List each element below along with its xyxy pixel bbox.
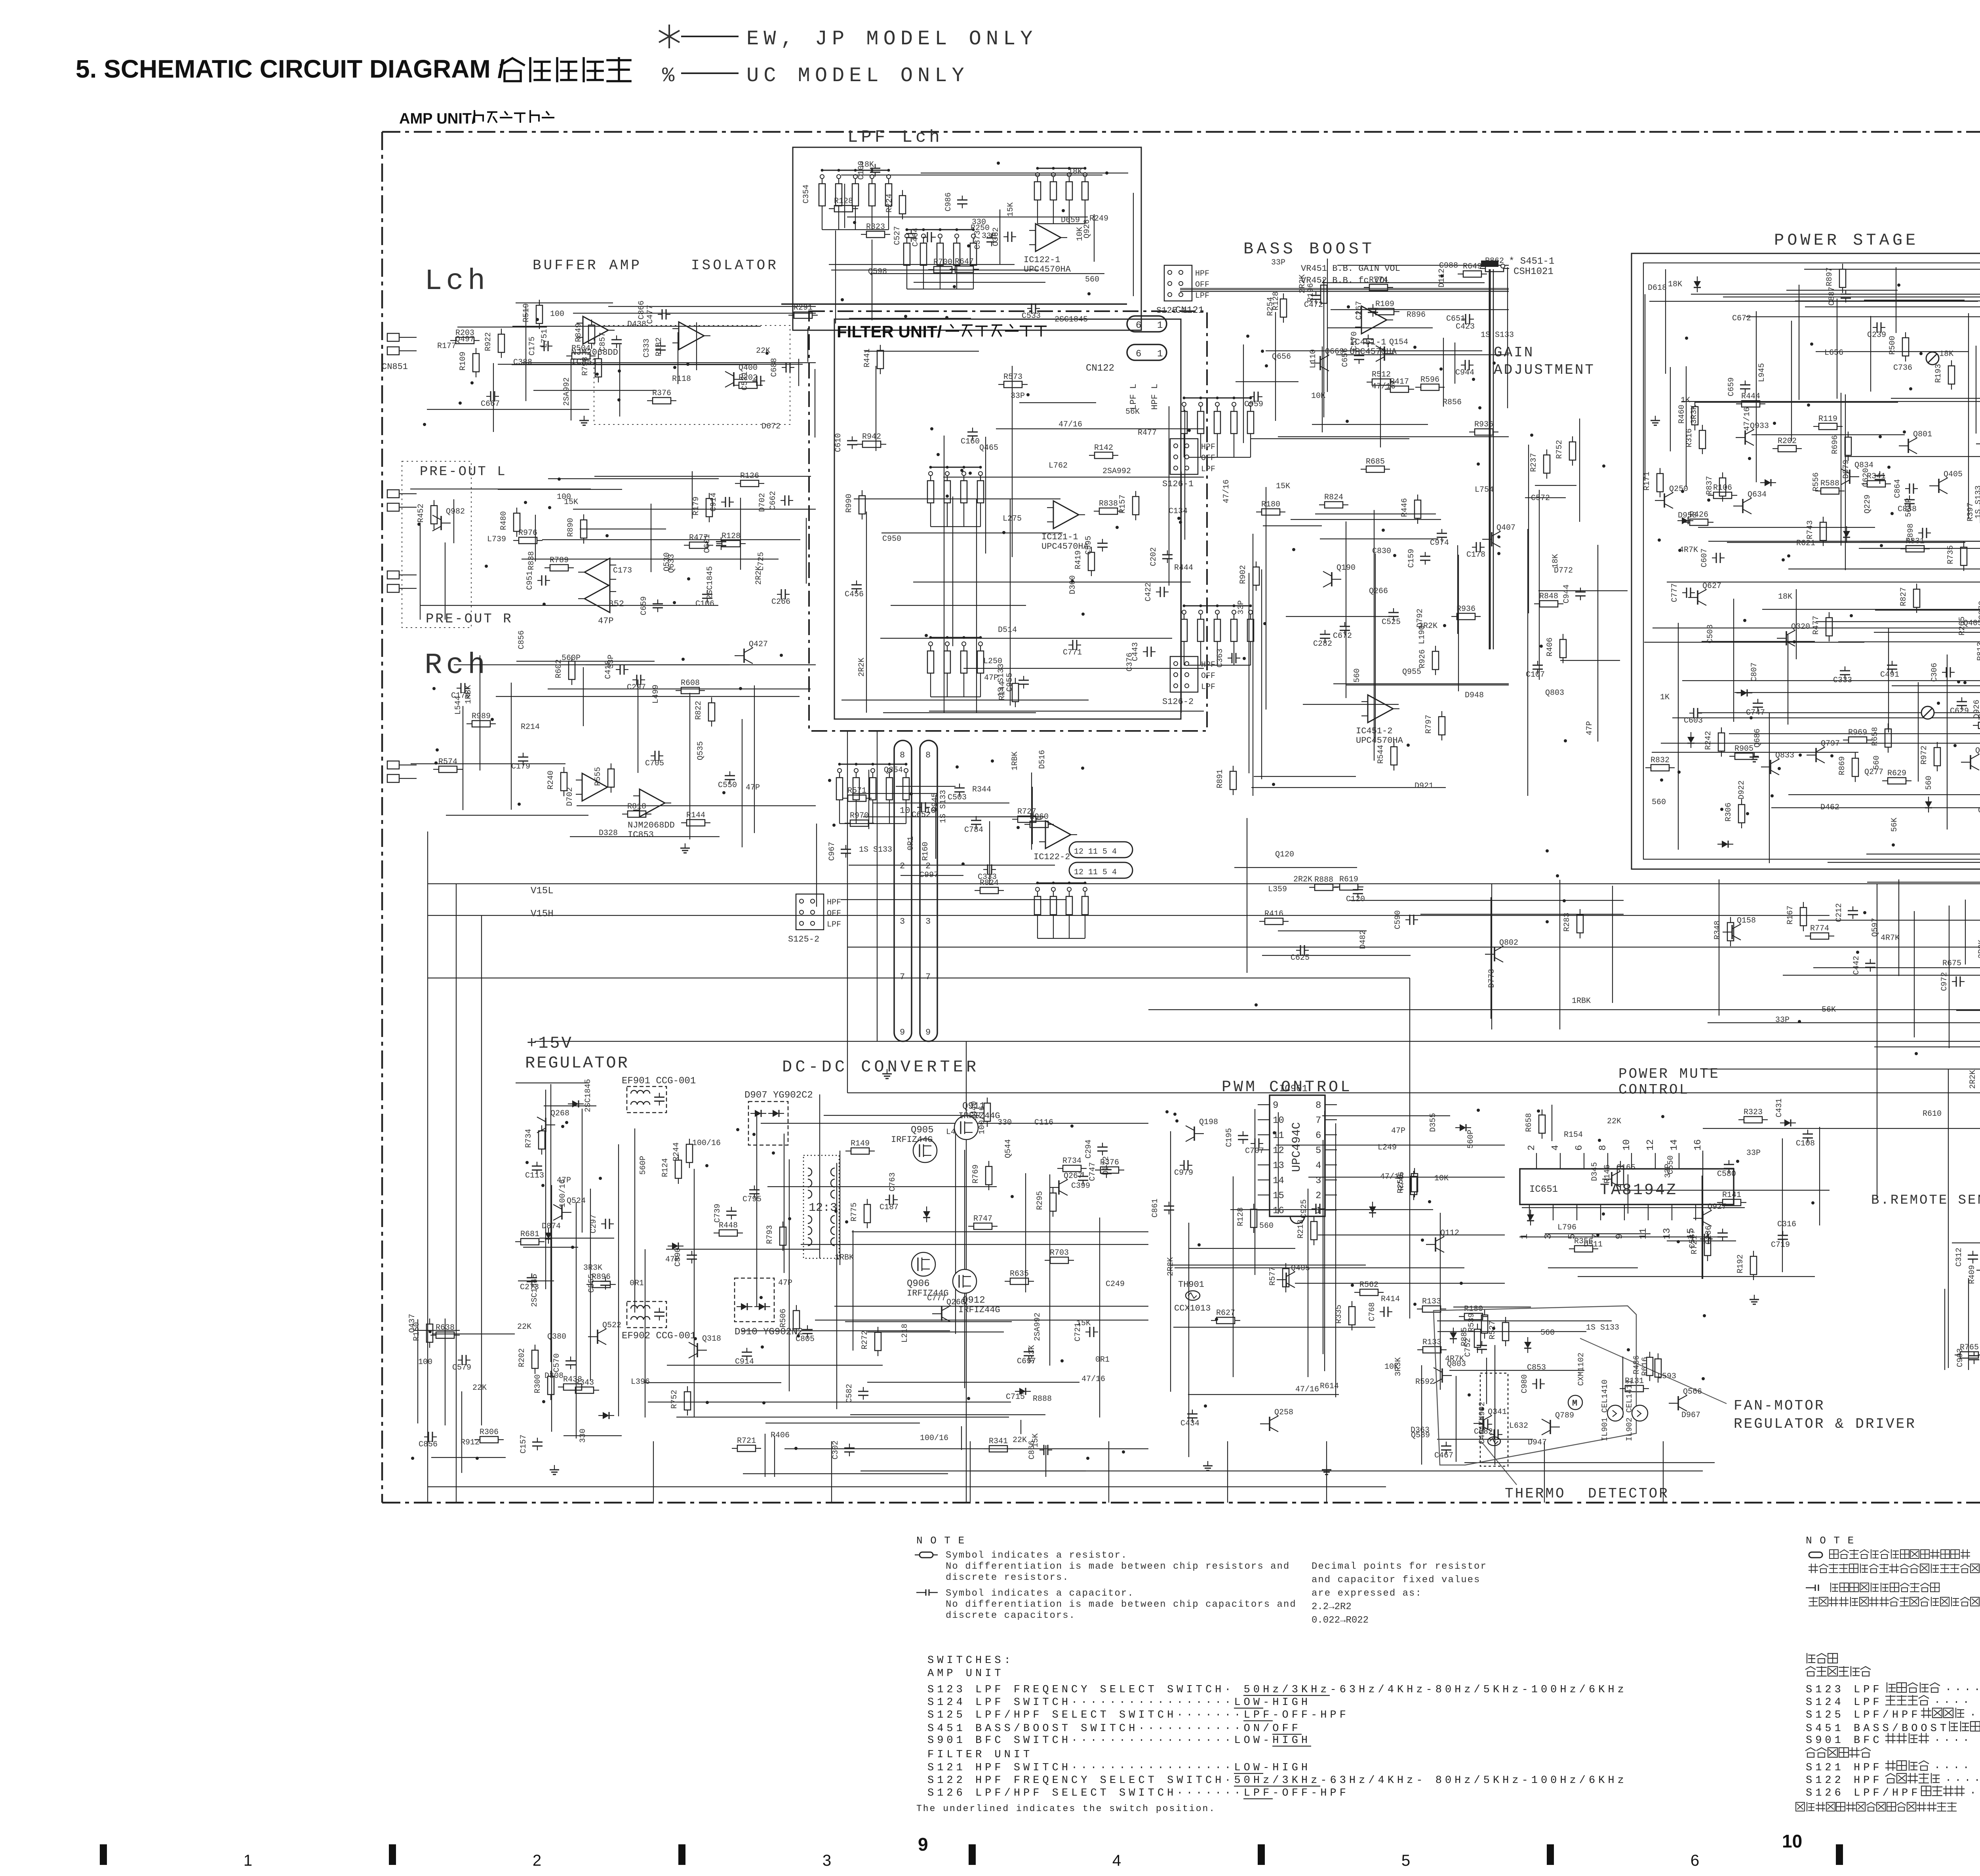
svg-text:S123 LPF: S123 LPF [1806, 1684, 1883, 1696]
svg-text:R621: R621 [1796, 539, 1815, 548]
wire [1437, 1320, 1612, 1321]
svg-text:···· LOW-HIGH: ···· LOW-HIGH [1934, 1735, 1980, 1747]
wire [445, 542, 445, 620]
svg-text:N O T E: N O T E [916, 1535, 965, 1547]
svg-text:R734: R734 [524, 1129, 533, 1148]
junction dots [937, 453, 940, 456]
svg-text:R890: R890 [566, 518, 575, 537]
svg-text:Q906: Q906 [907, 1279, 930, 1289]
svg-text:9: 9 [918, 1834, 928, 1855]
svg-text:D702: D702 [758, 493, 767, 512]
svg-text:AMP UNIT: AMP UNIT [927, 1668, 1004, 1680]
svg-text:R905: R905 [1734, 744, 1753, 753]
svg-text:C178: C178 [1466, 550, 1485, 559]
svg-text:Q801: Q801 [1913, 430, 1932, 439]
svg-text:R616: R616 [1641, 1357, 1650, 1376]
svg-text:R556: R556 [1812, 472, 1821, 491]
resistor R157 [1133, 497, 1139, 515]
svg-text:33P: 33P [982, 232, 996, 241]
svg-text:R343: R343 [575, 1378, 594, 1387]
svg-text:D328: D328 [599, 829, 618, 838]
svg-text:L593: L593 [1657, 1372, 1676, 1381]
svg-text:7: 7 [1316, 1115, 1321, 1126]
svg-text:Q154: Q154 [1389, 338, 1408, 347]
resistor R571 [848, 795, 866, 801]
block box FILTER UNIT inner [834, 319, 1181, 719]
svg-text:33P: 33P [1664, 1164, 1673, 1178]
svg-text:47/16: 47/16 [1059, 420, 1082, 429]
svg-text:R519: R519 [522, 303, 531, 322]
svg-text:1S S133: 1S S133 [1481, 331, 1514, 340]
IC651 TA8194Z [1520, 1169, 1734, 1204]
resistor R588 [1821, 488, 1839, 494]
svg-text:10: 10 [900, 806, 910, 816]
capacitor C719 [1782, 1231, 1783, 1235]
capacitor C697 [1028, 1347, 1029, 1352]
svg-text:C997: C997 [920, 871, 939, 880]
svg-text:R224: R224 [885, 194, 894, 213]
capacitor C570 [1368, 335, 1369, 339]
svg-text:1S S133: 1S S133 [939, 790, 948, 823]
resistor R480 [514, 513, 520, 531]
svg-text:R149: R149 [851, 1139, 870, 1148]
svg-text:V15H: V15H [531, 909, 554, 919]
resistor R126 [741, 480, 759, 487]
resistor R822 [708, 703, 715, 721]
svg-text:Q258: Q258 [1274, 1408, 1293, 1417]
svg-text:NJM2068DD: NJM2068DD [628, 820, 675, 830]
svg-text:33P: 33P [1271, 258, 1285, 267]
switch resistor ladder [1038, 883, 1085, 884]
capacitor C688 [782, 367, 786, 368]
resistor R797 [1439, 717, 1445, 735]
resistor R703 [1050, 1257, 1068, 1263]
resistor R240 [561, 772, 567, 791]
svg-text:R171: R171 [1643, 472, 1652, 491]
capacitor C467 [1446, 1442, 1447, 1446]
resistor R519 [536, 305, 543, 323]
svg-text:C282: C282 [1313, 639, 1332, 649]
svg-text:Lch: Lch [425, 265, 489, 298]
resistor R627 [1217, 1317, 1235, 1324]
connector CN121 [1127, 316, 1167, 332]
svg-text:C707: C707 [1245, 1147, 1264, 1156]
svg-text:C477: C477 [646, 305, 655, 324]
diode D533 [1527, 1214, 1534, 1221]
svg-text:CSH1021: CSH1021 [1514, 266, 1554, 277]
svg-text:R647: R647 [955, 257, 974, 266]
capacitor C805 [807, 1325, 808, 1330]
svg-text:D345: D345 [1590, 1162, 1599, 1181]
svg-text:R192: R192 [1736, 1254, 1745, 1273]
resistor R323 [1744, 1117, 1762, 1123]
junction dots [1863, 911, 1866, 914]
switch S126-2 [1170, 656, 1198, 692]
resistor R577 [1283, 1269, 1289, 1287]
svg-text:Q465: Q465 [979, 443, 998, 453]
resistor R128 [1251, 1209, 1257, 1227]
svg-text:OFF: OFF [827, 909, 841, 918]
svg-text:Q598: Q598 [868, 267, 887, 276]
transistor Q158 [1731, 925, 1733, 939]
svg-text:IRFIZ44G: IRFIZ44G [958, 1305, 1000, 1315]
svg-text:R813: R813 [1976, 642, 1980, 661]
resistor R224 [899, 196, 906, 214]
capacitor C580 [1729, 1160, 1729, 1164]
svg-text:C590: C590 [1394, 910, 1403, 929]
svg-text:REGULATOR & DRIVER: REGULATOR & DRIVER [1734, 1416, 1916, 1432]
capacitor C629 [1961, 697, 1962, 702]
svg-text:discrete capacitors.: discrete capacitors. [946, 1610, 1076, 1621]
svg-text:C572: C572 [1531, 494, 1550, 503]
svg-text:13: 13 [1662, 1228, 1673, 1239]
svg-text:POWER STAGE: POWER STAGE [1774, 231, 1919, 250]
capacitor C662 [781, 500, 785, 501]
resistor R131 [1625, 1385, 1643, 1392]
svg-text:R128: R128 [1236, 1207, 1245, 1226]
capacitor C986 [962, 196, 963, 200]
svg-text:R658: R658 [1525, 1113, 1534, 1132]
svg-text:R769: R769 [971, 1164, 980, 1183]
svg-text:FAN-MOTOR: FAN-MOTOR [1734, 1398, 1825, 1414]
capacitor C747 [1106, 1165, 1107, 1170]
svg-text:D659: D659 [1061, 216, 1080, 225]
svg-text:1S S133: 1S S133 [859, 845, 892, 854]
capacitor C362 [1003, 236, 1008, 237]
svg-text:Q266: Q266 [1369, 587, 1388, 596]
svg-text:R283: R283 [1563, 913, 1572, 932]
wire [1559, 880, 1560, 1029]
svg-text:C629: C629 [1950, 707, 1969, 716]
svg-text:Q112: Q112 [1440, 1229, 1459, 1238]
capacitor C297 [601, 1223, 605, 1224]
resistor R616 [1655, 1359, 1661, 1377]
svg-text:IC853: IC853 [628, 830, 654, 840]
svg-text:THERMO: THERMO [1505, 1486, 1566, 1502]
resistor R774 [1811, 933, 1829, 939]
svg-text:R109: R109 [459, 352, 468, 371]
wire [1968, 1278, 1969, 1370]
resistor R242 [1718, 733, 1725, 751]
op-amp U [582, 773, 607, 801]
switch S125-1 [1164, 265, 1192, 301]
svg-text:4: 4 [1316, 1161, 1321, 1171]
capacitor C472 [1316, 291, 1316, 295]
capacitor C603 [1689, 713, 1694, 713]
svg-text:R912: R912 [461, 1438, 480, 1447]
svg-text:47/16: 47/16 [1372, 382, 1396, 391]
resistor R896 [592, 1281, 610, 1288]
svg-text:Q834: Q834 [1854, 461, 1873, 470]
resistor R180 [1464, 1313, 1483, 1320]
svg-text:C715: C715 [1006, 1393, 1025, 1402]
svg-text:EW, JP MODEL ONLY: EW, JP MODEL ONLY [746, 27, 1038, 51]
svg-text:560: 560 [1085, 275, 1099, 284]
resistor R417 [1390, 386, 1409, 392]
svg-text:Q190: Q190 [1336, 563, 1356, 573]
capacitor C236 [1722, 1229, 1723, 1233]
capacitor C418 [616, 669, 620, 670]
svg-text:R588: R588 [1820, 479, 1839, 488]
svg-text:C306: C306 [1930, 663, 1939, 682]
svg-text:16: 16 [1693, 1139, 1704, 1151]
legend star EW JP MODEL ONLY [659, 25, 680, 48]
resistor R203 [456, 337, 474, 344]
capacitor C768 [1380, 1311, 1384, 1312]
svg-text:1S S133: 1S S133 [1974, 485, 1980, 519]
resistor R721 [1704, 1237, 1711, 1256]
bus line bass boost [1180, 288, 1509, 290]
capacitor C777 [1682, 592, 1687, 593]
svg-text:6: 6 [1136, 349, 1141, 360]
svg-text:R638: R638 [436, 1323, 455, 1332]
svg-text:R896: R896 [1407, 310, 1426, 320]
svg-text:3: 3 [822, 1852, 831, 1869]
resistor R573 [1004, 381, 1022, 388]
resistor R752 [1569, 442, 1576, 460]
svg-text:R891: R891 [1216, 769, 1225, 788]
resistor R237 [1544, 455, 1550, 473]
svg-text:R242: R242 [1704, 731, 1713, 750]
svg-text:C986: C986 [944, 192, 953, 211]
svg-text:Q982: Q982 [446, 507, 465, 516]
resistor R504 [572, 353, 590, 359]
svg-text:PRE-OUT L: PRE-OUT L [420, 464, 507, 479]
resistor R890 [581, 520, 587, 538]
svg-text:1: 1 [1157, 320, 1163, 331]
svg-text:R323: R323 [866, 223, 885, 232]
resistor R831 [1906, 546, 1924, 552]
svg-text:C297: C297 [589, 1214, 598, 1233]
capacitor C179 [523, 753, 524, 757]
svg-text:C950: C950 [882, 535, 901, 544]
svg-text:R316: R316 [1685, 428, 1694, 447]
svg-text:6: 6 [1316, 1130, 1321, 1141]
svg-text:IRFIZ44G: IRFIZ44G [958, 1111, 1000, 1121]
svg-text:1K: 1K [1681, 396, 1690, 405]
wire [548, 689, 811, 689]
svg-text:C491: C491 [1880, 670, 1899, 679]
svg-text:L396: L396 [631, 1378, 650, 1387]
transistor Q803 [1441, 1368, 1443, 1383]
svg-text:R500: R500 [1888, 336, 1897, 355]
capacitor C282 [1325, 630, 1325, 634]
svg-text:Q524: Q524 [567, 1197, 586, 1206]
resistor R512 [1372, 379, 1390, 385]
svg-text:1RBK: 1RBK [835, 1253, 854, 1262]
svg-text:D947: D947 [1528, 1438, 1547, 1447]
svg-text:R734: R734 [1062, 1157, 1081, 1166]
capacitor C442 [1870, 959, 1871, 963]
svg-text:2: 2 [533, 1852, 541, 1869]
svg-text:L751: L751 [540, 329, 549, 348]
input jack connector [387, 490, 399, 511]
resistor R180 [1262, 509, 1280, 515]
svg-text:R480: R480 [499, 511, 508, 530]
svg-text:16: 16 [1273, 1206, 1284, 1216]
svg-text:C925: C925 [1300, 1199, 1309, 1218]
capacitor C399 [1083, 1172, 1083, 1176]
svg-text:C944: C944 [1562, 584, 1571, 603]
svg-text:C955: C955 [1005, 673, 1015, 692]
junction dots [1953, 744, 1957, 747]
svg-text:47/16: 47/16 [1743, 407, 1752, 431]
resistor R438 [564, 1384, 582, 1390]
svg-text:560: 560 [1353, 668, 1362, 683]
resistor R743 [1820, 522, 1826, 540]
capacitor C533 [1027, 308, 1032, 309]
svg-text:560P: 560P [639, 1156, 648, 1175]
resistor R477 [1826, 618, 1832, 636]
svg-text:15K: 15K [1276, 482, 1290, 491]
junction dots [428, 1330, 432, 1333]
svg-text:D910 YG902N2: D910 YG902N2 [735, 1327, 803, 1338]
svg-text:R416: R416 [1264, 909, 1283, 919]
svg-text:C267: C267 [1355, 301, 1364, 320]
svg-text:2R2K: 2R2K [1418, 622, 1437, 631]
resistor R596 [1421, 384, 1439, 390]
diode D698 [1925, 801, 1932, 808]
svg-text:FILTER UNIT/: FILTER UNIT/ [837, 322, 942, 341]
svg-text:3R3K: 3R3K [1394, 1357, 1403, 1376]
svg-text:10K: 10K [1434, 1174, 1449, 1183]
svg-text:R409: R409 [1968, 1265, 1977, 1284]
svg-text:C610: C610 [834, 433, 843, 452]
svg-text:1S S133: 1S S133 [997, 664, 1006, 697]
wire [1456, 1376, 1456, 1462]
capacitor C178 [1472, 547, 1476, 548]
svg-text:47P: 47P [778, 1279, 792, 1288]
adjust symbol [1926, 352, 1939, 365]
op-amp 47P [584, 585, 610, 613]
svg-text:R635: R635 [1010, 1269, 1029, 1279]
svg-text:0R1: 0R1 [906, 836, 916, 850]
svg-text:56K: 56K [1890, 818, 1899, 832]
svg-text:47P: 47P [1391, 1126, 1405, 1136]
svg-text:C113: C113 [525, 1171, 544, 1180]
svg-text:2: 2 [1527, 1145, 1537, 1151]
filter unit dashed box [809, 311, 1207, 731]
resistor R562 [1360, 1289, 1378, 1296]
svg-text:C601: C601 [703, 534, 712, 553]
capacitor C503 [959, 784, 960, 788]
svg-text:4: 4 [1550, 1145, 1561, 1151]
svg-text:R972: R972 [1920, 746, 1929, 765]
svg-text:R703: R703 [1050, 1248, 1069, 1258]
transistor Q797 [1815, 748, 1817, 762]
svg-text:R743: R743 [1806, 520, 1815, 539]
resistor R638 [436, 1332, 454, 1338]
resistor R167 [1800, 908, 1807, 926]
wire [1375, 554, 1376, 740]
resistor R141 [1723, 1199, 1741, 1206]
svg-text:560P: 560P [562, 654, 581, 663]
svg-text:1S S133: 1S S133 [1586, 1323, 1619, 1332]
svg-text:S126 LPF/HPF SELECT SWITCH····: S126 LPF/HPF SELECT SWITCH·······LPF-OFF… [927, 1787, 1349, 1799]
svg-text:C527: C527 [893, 226, 902, 245]
svg-text:The underlined indicates the s: The underlined indicates the switch posi… [916, 1804, 1216, 1814]
rectifier D907 YG902C2 [748, 1102, 788, 1145]
resistor R752 [684, 1392, 691, 1410]
svg-text:S451 BASS/BOOST: S451 BASS/BOOST [1806, 1723, 1950, 1735]
svg-text:Q530: Q530 [663, 552, 672, 571]
transistor Q260 [941, 1307, 942, 1321]
wire [694, 1169, 695, 1417]
svg-text:L499: L499 [651, 685, 661, 704]
resistor R769 [986, 1166, 992, 1185]
svg-text:8: 8 [1316, 1100, 1321, 1111]
filter EF902 CCG-001 [627, 1301, 666, 1328]
capacitor C659 [657, 599, 658, 604]
wire [1181, 472, 1182, 713]
capacitor C157 [537, 1438, 538, 1442]
svg-text:R300: R300 [533, 1374, 543, 1393]
resistor R849 [588, 325, 595, 343]
svg-text:B.REMOTE SENSE: B.REMOTE SENSE [1871, 1193, 1980, 1208]
input jack connector [387, 333, 399, 355]
resistor R922 [498, 334, 505, 352]
resistor R306 [1738, 805, 1745, 823]
svg-text:R727: R727 [1017, 807, 1036, 816]
svg-text:6: 6 [1691, 1852, 1699, 1869]
svg-text:C771: C771 [1063, 648, 1082, 657]
svg-text:R681: R681 [520, 1230, 539, 1239]
svg-text:1: 1 [1519, 1234, 1530, 1239]
svg-text:Q522: Q522 [602, 1321, 621, 1330]
resistor R376 [653, 398, 671, 404]
capacitor C721 [1085, 1332, 1090, 1332]
capacitor C667 [486, 396, 491, 397]
svg-text:* S451-1: * S451-1 [1509, 256, 1554, 267]
svg-text:2SA992: 2SA992 [562, 377, 571, 406]
svg-text:Q634: Q634 [1748, 490, 1767, 499]
svg-text:R182: R182 [655, 337, 664, 356]
resistor R146 [1617, 1166, 1624, 1185]
capacitor C175 [540, 346, 544, 346]
transistor Q407 [1491, 532, 1493, 546]
capacitor C955 [1023, 676, 1024, 680]
svg-text:C672: C672 [1333, 632, 1352, 641]
svg-text:R610: R610 [1923, 1109, 1942, 1119]
svg-text:CN122: CN122 [1086, 363, 1114, 374]
wire [1814, 541, 1980, 542]
junction dots [1546, 920, 1549, 923]
resistor R798 [595, 359, 602, 377]
svg-text:C857: C857 [598, 332, 607, 351]
wire [873, 803, 1009, 803]
svg-text:Q802: Q802 [1499, 938, 1518, 948]
capacitor C120 [1357, 885, 1358, 890]
svg-text:5: 5 [1401, 1852, 1410, 1869]
svg-text:EF902 CCG-001: EF902 CCG-001 [622, 1331, 696, 1341]
capacitor C443 [1143, 651, 1147, 652]
resistor R837 [1719, 478, 1726, 496]
junction dots [961, 862, 965, 866]
svg-text:Q627: Q627 [1702, 582, 1721, 591]
resistor R192 [1750, 1256, 1757, 1275]
capacitor C363 [1228, 658, 1232, 658]
bottom ruler [100, 1844, 107, 1865]
grounds [584, 416, 584, 420]
capacitor C100 [875, 164, 876, 168]
svg-text:No differentiation is made bet: No differentiation is made between chip … [946, 1599, 1297, 1610]
svg-text:2: 2 [925, 861, 931, 871]
capacitor C525 [1393, 608, 1394, 613]
svg-text:HPF: HPF [827, 898, 841, 907]
svg-text:14: 14 [1669, 1139, 1680, 1151]
capacitor C106 [707, 590, 708, 594]
resistor R406 [1560, 639, 1566, 658]
